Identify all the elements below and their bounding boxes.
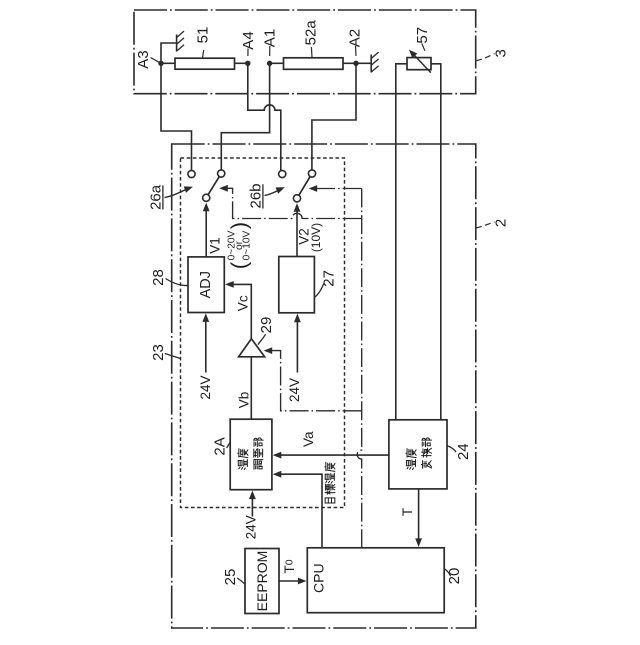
svg-text:26b: 26b bbox=[248, 183, 265, 208]
svg-text:29: 29 bbox=[258, 317, 275, 334]
svg-text:2A: 2A bbox=[211, 437, 228, 455]
svg-text:Va: Va bbox=[301, 431, 316, 447]
svg-text:26a: 26a bbox=[147, 184, 164, 210]
svg-text:T0: T0 bbox=[282, 559, 297, 573]
svg-text:A1: A1 bbox=[262, 29, 279, 47]
svg-text:24: 24 bbox=[455, 443, 472, 460]
svg-text:52a: 52a bbox=[302, 20, 319, 46]
svg-text:24V: 24V bbox=[198, 375, 213, 399]
svg-text:(: ( bbox=[226, 261, 251, 269]
svg-text:A3: A3 bbox=[135, 50, 152, 68]
svg-text:3: 3 bbox=[492, 49, 509, 57]
svg-text:EEPROM: EEPROM bbox=[254, 551, 270, 612]
svg-text:A4: A4 bbox=[240, 31, 257, 49]
svg-text:51: 51 bbox=[195, 27, 212, 44]
svg-text:(10V): (10V) bbox=[309, 223, 323, 252]
svg-text:V1: V1 bbox=[208, 237, 223, 254]
svg-text:57: 57 bbox=[414, 27, 431, 44]
svg-text:0~10V: 0~10V bbox=[242, 230, 253, 260]
svg-text:Vb: Vb bbox=[237, 392, 252, 409]
svg-text:A2: A2 bbox=[347, 29, 364, 47]
svg-text:24V: 24V bbox=[287, 378, 302, 402]
svg-text:20: 20 bbox=[446, 568, 463, 585]
svg-text:25: 25 bbox=[222, 569, 239, 586]
svg-text:24V: 24V bbox=[243, 515, 258, 539]
svg-text:2: 2 bbox=[493, 219, 510, 227]
svg-text:ADJ: ADJ bbox=[198, 271, 214, 298]
svg-text:23: 23 bbox=[150, 344, 167, 361]
svg-text:): ) bbox=[226, 222, 251, 229]
svg-text:Vc: Vc bbox=[236, 295, 251, 311]
svg-text:CPU: CPU bbox=[311, 563, 327, 593]
svg-text:28: 28 bbox=[150, 269, 167, 286]
svg-text:T: T bbox=[400, 508, 415, 516]
